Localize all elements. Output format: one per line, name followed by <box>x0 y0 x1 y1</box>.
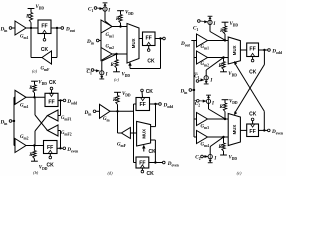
label Gm3 (e) <box>201 124 210 130</box>
node CK terminal even (e) <box>251 118 254 124</box>
svg-text:CK: CK <box>147 58 155 64</box>
svg-text:GmF: GmF <box>117 142 127 148</box>
flip-flop FF even (e) <box>247 124 259 137</box>
label subfigure d <box>107 170 113 175</box>
label FF even (e) <box>249 129 255 135</box>
label VDD (a) <box>36 5 45 11</box>
junction D_odd node (e) <box>263 49 265 51</box>
resistor R2 (c) <box>115 60 118 69</box>
resistor R2 (e) <box>222 58 225 70</box>
wire I3 to node3 (e) <box>209 103 226 118</box>
svg-text:MUX: MUX <box>232 45 237 55</box>
junction node A (b) <box>33 96 35 98</box>
node D_odd terminal (e) <box>268 49 271 52</box>
label R1 (c) <box>116 17 120 22</box>
label D_even (e) <box>271 129 283 136</box>
label VDD 3 (e) <box>229 100 238 106</box>
label FF even (d) <box>139 160 145 166</box>
resistor R (d) <box>116 96 119 105</box>
label CK top (b) <box>49 80 57 86</box>
svg-text:GmF2: GmF2 <box>61 131 72 137</box>
resistor R top (b) <box>33 85 36 93</box>
select pin arrow (d) <box>142 145 145 148</box>
svg-text:Gm2: Gm2 <box>201 62 210 68</box>
svg-text:Gm3: Gm3 <box>201 124 210 130</box>
wire node A to resistor (b) <box>34 93 36 98</box>
resistor R1 (c) <box>119 15 122 24</box>
wire rail to Gm2 (e) <box>194 57 197 59</box>
wire GmF to input node (a) <box>31 57 42 59</box>
clock pin triangle even (d) <box>140 165 144 168</box>
select pin arrow MUX odd (e) <box>234 61 237 64</box>
node C2b clock input (e) <box>195 154 203 161</box>
clock pin triangle (a) <box>42 30 46 33</box>
node CK terminal top (b) <box>50 87 53 93</box>
amplifier GmF1 (b) <box>48 110 59 121</box>
wire cross vertical to node A (b) <box>34 97 36 115</box>
wire C2 arrow (e) <box>199 100 206 103</box>
label VDD top (b) <box>38 81 47 87</box>
junction node4 (e) <box>222 136 224 138</box>
svg-text:CK: CK <box>146 89 154 95</box>
label CK even (d) <box>147 171 155 177</box>
clock pin triangle odd (e) <box>251 53 255 56</box>
wire resistor to VDD bottom (b) <box>33 159 35 162</box>
flip-flop FF odd (b) <box>45 93 58 106</box>
node D_in input (a) <box>0 27 15 34</box>
node CK terminal odd (e) <box>251 57 254 62</box>
svg-text:CK: CK <box>147 171 155 176</box>
label GmF1 (b) <box>61 116 72 122</box>
label GmF2 (b) <box>61 131 72 137</box>
flip-flop FF odd (e) <box>247 43 259 57</box>
wire rail to Gm4 (e) <box>194 136 197 138</box>
clock pin triangle odd (d) <box>141 98 145 101</box>
label CK select (d) <box>149 149 157 155</box>
label FF odd (e) <box>249 47 255 53</box>
wire rail to FF odd (d) <box>134 103 137 105</box>
label I2 (e) <box>209 78 213 83</box>
wire D_odd to GmF1 (b) <box>58 100 61 115</box>
amplifier GmF (d) <box>121 128 130 139</box>
wire I2 to node2 (c) <box>102 54 116 70</box>
select pin arrow (c) <box>129 62 132 65</box>
multiplexer MUX even (e) <box>228 114 240 146</box>
svg-text:FF: FF <box>41 24 47 30</box>
wire Gm2 to MUX (e) <box>208 57 229 59</box>
resistor R4 (e) <box>222 137 225 151</box>
label FF (a) <box>41 24 47 30</box>
label CK bottom (b) <box>47 162 55 168</box>
wire rail to Gm2 (b) <box>14 145 15 147</box>
svg-text:(a): (a) <box>32 68 38 73</box>
label Gm1 (c) <box>106 33 115 39</box>
wire D_even to MUX (d) <box>151 140 156 163</box>
flip-flop FF (a) <box>38 20 51 34</box>
junction D_even node (e) <box>263 129 265 131</box>
wire Gm4 to MUX (e) <box>208 136 229 138</box>
amplifier Gm1 (e) <box>197 34 208 47</box>
label FF (c) <box>146 36 152 42</box>
label I2 (c) <box>105 73 109 78</box>
junction node B (b) <box>33 144 35 146</box>
junction D_even node (d) <box>154 161 156 163</box>
label D_odd (b) <box>66 99 78 106</box>
label GmF (a) <box>41 67 51 73</box>
multiplexer MUX (c) <box>127 24 139 64</box>
wire FF to D_odd (d) <box>150 103 159 105</box>
current source I4 (e) <box>208 154 213 162</box>
svg-text:VDD: VDD <box>229 100 238 106</box>
svg-text:Gm2: Gm2 <box>20 135 29 141</box>
wire FF to D_odd (e) <box>259 49 268 51</box>
svg-text:VDD: VDD <box>38 81 47 87</box>
wire node2 to resistor (c) <box>116 54 118 60</box>
wire GmF2 cross to node A (b) <box>35 115 48 131</box>
node D_odd terminal (b) <box>63 99 66 102</box>
wire C1b arrow (c) <box>94 70 100 73</box>
node D_in input (b) <box>0 120 14 127</box>
node D_odd terminal (d) <box>159 103 162 106</box>
junction output node (a) <box>56 27 58 29</box>
wire Gm1 to MUX (e) <box>208 40 229 42</box>
label GmF (d) <box>117 142 127 148</box>
label MUX (c) <box>131 38 136 48</box>
power VDD bar bottom (b) <box>31 160 38 162</box>
svg-text:FF: FF <box>140 102 146 108</box>
label FF odd (b) <box>48 99 54 105</box>
wire C1 arrow (c) <box>97 7 103 10</box>
power VDD bar 2 (c) <box>113 71 120 73</box>
svg-text:VDD: VDD <box>230 22 239 28</box>
clock pin triangle even (e) <box>251 124 255 127</box>
svg-text:VDD: VDD <box>122 72 131 78</box>
svg-text:(e): (e) <box>237 170 242 175</box>
wire CK stub (a) <box>44 34 46 39</box>
wire rail to FF even (d) <box>134 162 137 164</box>
wire FF to D_out (c) <box>155 38 163 40</box>
junction D_even node (b) <box>59 147 61 149</box>
current source I2 (e) <box>204 76 209 84</box>
label VDD bottom (b) <box>39 166 48 172</box>
label Gm4 (e) <box>201 143 210 149</box>
wire input rail (e) <box>193 41 195 138</box>
label VDD 1 (c) <box>125 10 134 16</box>
wire rail to Gm3 (e) <box>194 118 197 120</box>
amplifier Gm2 (b) <box>15 139 26 153</box>
wire D_even to GmF2 (b) <box>58 131 61 149</box>
svg-text:CK: CK <box>49 80 57 86</box>
power VDD bar (a) <box>28 8 35 10</box>
wire Gm to FF rail (d) <box>110 110 134 112</box>
svg-text:Gm1: Gm1 <box>201 45 210 51</box>
label VDD 2 (e) <box>228 72 237 78</box>
wire D_odd to MUX (d) <box>151 104 156 127</box>
resistor R bottom (b) <box>33 151 36 159</box>
svg-text:FF: FF <box>249 47 255 53</box>
svg-text:CK: CK <box>47 162 55 168</box>
label R2 (e) <box>218 64 222 69</box>
label VDD 2 (c) <box>122 72 131 78</box>
node C2 clock input (e) <box>195 100 201 108</box>
wire FF to D_even (e) <box>259 129 268 131</box>
junction output node (c) <box>159 37 161 39</box>
junction node3 (e) <box>224 118 226 120</box>
node CK terminal odd (d) <box>141 89 144 97</box>
node D_in input (d) <box>84 110 100 117</box>
svg-text:Gm1: Gm1 <box>106 33 115 39</box>
power VDD bar 3 (e) <box>222 99 229 101</box>
label CK (a) <box>41 47 49 53</box>
power VDD bar (d) <box>114 91 121 93</box>
label subfigure e <box>237 170 242 175</box>
wire Gm2 to FF (b) <box>26 145 44 147</box>
node CK terminal (c) <box>147 46 150 52</box>
label D_even (b) <box>66 147 78 154</box>
wire input corner (e) <box>191 40 194 42</box>
svg-text:MUX: MUX <box>131 38 136 48</box>
resistor R (a) <box>29 13 32 23</box>
wire node B to resistor (b) <box>33 146 35 151</box>
svg-text:FF: FF <box>249 129 255 135</box>
wire R3 to VDD (e) <box>224 100 226 103</box>
label D_odd (e) <box>271 48 283 55</box>
label Gm1 (b) <box>20 104 29 110</box>
label D_odd (d) <box>163 102 175 109</box>
junction input rail (e) <box>193 89 195 91</box>
junction node2 (c) <box>115 53 117 55</box>
junction input split (b) <box>13 120 15 122</box>
wire FF to D_odd (b) <box>58 99 63 101</box>
node CK terminal bottom (b) <box>49 154 52 159</box>
svg-text:(d): (d) <box>107 170 113 175</box>
svg-text:Gm1: Gm1 <box>20 35 29 41</box>
node C1 clock input (c) <box>88 6 97 13</box>
svg-text:FF: FF <box>146 36 152 42</box>
label FF even (b) <box>47 145 53 151</box>
wire feedback to GmF (a) <box>52 57 58 59</box>
label CK even (e) <box>249 111 257 117</box>
flip-flop FF even (b) <box>44 141 58 154</box>
node D_in input (c) <box>86 39 101 46</box>
wire C2b arrow (e) <box>203 155 208 158</box>
svg-text:VDD: VDD <box>228 72 237 78</box>
wire C1b arrow (e) <box>199 79 204 82</box>
amplifier Gm2 (e) <box>197 51 208 64</box>
wire R2 to VDD (c) <box>116 68 118 72</box>
wire feedback down (a) <box>56 28 58 58</box>
label VDD 4 (e) <box>229 155 238 161</box>
svg-text:Gm1: Gm1 <box>20 104 29 110</box>
node output terminal (c) <box>163 37 166 40</box>
label D_out of previous stage (e) <box>180 41 191 48</box>
amplifier Gm (d) <box>100 104 111 118</box>
wire I1 to node1 (e) <box>210 25 225 41</box>
label I3 (e) <box>211 102 215 107</box>
junction node2 (e) <box>222 56 224 58</box>
clock pin triangle (c) <box>147 42 151 45</box>
wire MUX to FF (c) <box>139 38 143 40</box>
node C1 clock input (e) <box>193 20 200 32</box>
label Gm1 (e) <box>201 45 210 51</box>
node CK terminal (a) <box>43 39 46 42</box>
wire Gm3 to MUX (e) <box>208 118 229 120</box>
amplifier GmF feedback (a) <box>42 51 52 64</box>
junction D_odd node (d) <box>154 103 156 105</box>
svg-text:MUX: MUX <box>232 125 237 135</box>
label MUX even (e) <box>232 125 237 135</box>
wire I1 to node (c) <box>105 11 112 26</box>
label Gm (d) <box>103 117 111 123</box>
svg-text:GmF1: GmF1 <box>61 116 72 122</box>
label VDD (d) <box>122 92 131 98</box>
wire I4 to node4 (e) <box>210 137 223 154</box>
wire rail to Gm1 (b) <box>14 96 15 98</box>
junction input node (a) <box>30 27 32 29</box>
label I4 (e) <box>213 156 217 161</box>
label MUX (d) <box>141 129 146 139</box>
label FF odd (d) <box>140 102 146 108</box>
label subfigure b <box>33 170 39 175</box>
node C1b clock input (c) <box>86 69 93 76</box>
power VDD bar 4 (e) <box>220 154 227 156</box>
svg-text:CK: CK <box>41 47 49 53</box>
svg-text:Gm2: Gm2 <box>106 44 115 50</box>
wire MUX to FF even (e) <box>240 129 246 131</box>
wire Gm2 to MUX (c) <box>112 53 127 55</box>
amplifier Gm1 (b) <box>15 90 26 104</box>
svg-text:GmF: GmF <box>41 67 51 73</box>
wire rail vertical (d) <box>133 104 135 163</box>
wire MUX to GmF (d) <box>130 132 136 134</box>
current source I1 (c) <box>103 3 108 11</box>
power VDD bar 1 (c) <box>117 10 124 12</box>
power VDD bar top (b) <box>31 80 38 82</box>
svg-text:VDD: VDD <box>125 10 134 16</box>
multiplexer MUX (d) <box>137 121 151 146</box>
current source I1 (e) <box>208 16 213 24</box>
wire R to VDD (d) <box>117 92 119 95</box>
junction node1 (e) <box>224 39 226 41</box>
resistor R1 (e) <box>223 26 226 40</box>
label CK odd (d) <box>146 89 154 95</box>
clock pin triangle even (b) <box>48 150 52 153</box>
wire FF to D_even (b) <box>57 147 63 149</box>
wire C1 arrow (e) <box>200 21 208 24</box>
svg-text:CK: CK <box>249 111 257 117</box>
wire input rail (c) <box>100 33 102 48</box>
wire Gm1 to FF input node (a) <box>26 27 38 29</box>
label Gm2 (c) <box>106 44 115 50</box>
label I1 (e) <box>212 22 216 27</box>
label Gm2 (b) <box>20 135 29 141</box>
label CK odd (e) <box>249 69 257 75</box>
wire FF to D_even (d) <box>149 162 163 164</box>
wire node to resistor (a) <box>30 23 32 29</box>
label R (d) <box>113 98 117 103</box>
junction node1 (c) <box>119 25 121 27</box>
svg-text:FF: FF <box>48 99 54 105</box>
flip-flop FF odd (d) <box>136 98 150 111</box>
amplifier GmF2 (b) <box>48 125 59 136</box>
svg-text:VDD: VDD <box>229 155 238 161</box>
flip-flop FF (c) <box>143 32 156 46</box>
flip-flop FF even (d) <box>136 157 149 168</box>
label R4 (e) <box>218 145 222 150</box>
current source I2 (c) <box>99 71 104 79</box>
wire resistor to VDD (b) <box>34 81 36 85</box>
svg-text:Gm4: Gm4 <box>201 143 210 149</box>
label R2 (c) <box>110 63 114 68</box>
power VDD bar 2 (e) <box>220 71 227 73</box>
svg-text:Gm: Gm <box>103 117 111 123</box>
wire node to resistor (d) <box>117 105 119 112</box>
amplifier Gm3 (e) <box>197 113 208 126</box>
label R1 (e) <box>220 29 224 34</box>
wire select feedback (c) <box>130 39 161 69</box>
label D_even (d) <box>167 161 179 168</box>
label R (a) <box>26 15 30 20</box>
wire rail to Gm1 (e) <box>194 40 197 42</box>
wire R4 to VDD (e) <box>223 151 225 155</box>
wire R1 to VDD (e) <box>224 22 226 26</box>
current source I3 (e) <box>206 95 211 103</box>
node C1b clock input (e) <box>194 73 200 82</box>
amplifier Gm2 (c) <box>101 48 112 61</box>
wire resistor to VDD (a) <box>30 9 32 13</box>
label I1 (c) <box>107 9 111 14</box>
svg-text:(c): (c) <box>114 77 119 82</box>
node D_even terminal (b) <box>63 147 66 150</box>
label Gm1 (a) <box>20 35 29 41</box>
wire MUX to FF odd (e) <box>240 49 246 51</box>
resistor R3 (e) <box>223 103 226 119</box>
node D_in input (e) <box>180 89 195 96</box>
wire D_odd feedback (e) <box>235 50 264 112</box>
svg-text:MUX: MUX <box>141 129 146 139</box>
power VDD bar 1 (e) <box>222 21 229 23</box>
wire input rail (b) <box>13 97 15 145</box>
wire Gm1 to MUX (c) <box>112 26 127 28</box>
label subfigure c <box>114 77 119 82</box>
wire I2 to node2 (e) <box>206 58 223 76</box>
wire Gm1 to FF (b) <box>26 96 45 98</box>
amplifier Gm1 (c) <box>101 20 112 33</box>
node D_even terminal (d) <box>163 161 166 164</box>
wire R2 to VDD (e) <box>223 70 225 72</box>
label D_out (a) <box>65 27 76 34</box>
label R top (b) <box>29 86 33 91</box>
label MUX odd (e) <box>232 45 237 55</box>
junction D_odd node (b) <box>59 99 61 101</box>
junction node (d) <box>116 110 118 112</box>
wire GmF1 cross to node B (b) <box>35 116 48 132</box>
wire GmF to node (d) <box>118 111 122 133</box>
node D_out terminal (a) <box>61 27 64 30</box>
wire feedback up (a) <box>30 28 32 58</box>
wire FF to D_out (a) <box>51 27 61 29</box>
node D_even terminal (e) <box>268 129 271 132</box>
clock pin triangle odd (b) <box>49 93 53 96</box>
label R3 (e) <box>219 105 223 110</box>
label subfigure a <box>32 68 38 73</box>
amplifier Gm1 (a) <box>15 21 26 35</box>
wire D_even feedback (e) <box>235 64 264 130</box>
wire cross vertical to node B (b) <box>34 131 36 146</box>
multiplexer MUX odd (e) <box>228 37 240 64</box>
svg-text:VDD: VDD <box>122 92 131 98</box>
select pin arrow MUX even (e) <box>234 112 237 115</box>
